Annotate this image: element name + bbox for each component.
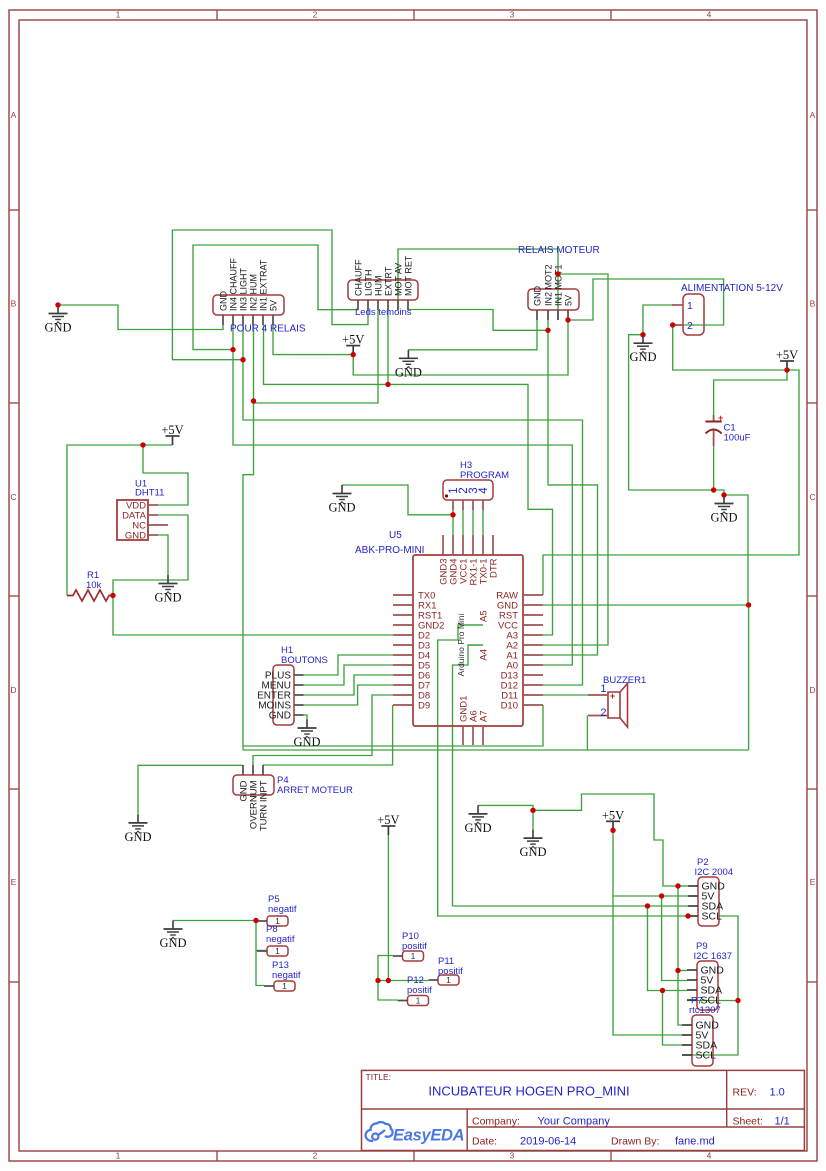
svg-text:4: 4 xyxy=(707,10,712,20)
svg-text:Your Company: Your Company xyxy=(538,1116,611,1128)
wire IN1 to EXTRT and A3 xyxy=(264,325,553,635)
wire P4 OVERNUM to D8 xyxy=(253,695,393,765)
wire P9 SCL row xyxy=(687,1000,738,1002)
connector POUR 4 RELAIS header xyxy=(213,257,284,325)
svg-text:Date:: Date: xyxy=(472,1136,497,1148)
wire A4 to SDA bus xyxy=(453,645,689,906)
svg-text:GND: GND xyxy=(159,936,186,950)
wire SDA to P7 xyxy=(663,991,683,1046)
svg-text:IN2 MOT2: IN2 MOT2 xyxy=(544,264,554,306)
connector P12 positif xyxy=(398,996,429,1006)
wire MOT RET to IN2 MOT2 xyxy=(408,310,548,331)
svg-text:GND: GND xyxy=(125,531,146,542)
junction RELAIS 5V pin xyxy=(565,317,570,322)
junction EXTRT net xyxy=(385,382,390,387)
connector P13 negatif xyxy=(264,981,295,991)
svg-text:2: 2 xyxy=(687,320,693,332)
connector P10 positif xyxy=(393,951,424,961)
svg-text:A4: A4 xyxy=(479,649,490,661)
junction IN4 net xyxy=(230,347,235,352)
svg-text:IN3 LIGHT: IN3 LIGHT xyxy=(239,267,249,311)
wire H1 ENTER to D6 xyxy=(304,675,394,695)
wire ground pair link xyxy=(478,805,533,810)
wire EXTRT led drop xyxy=(387,310,389,384)
wire H1 GND to ground xyxy=(304,715,308,720)
junction +5V positif node xyxy=(386,978,391,983)
wire +5V to P7 5V xyxy=(613,830,682,1035)
connector H1 BOUTONS xyxy=(257,665,303,725)
svg-text:1/1: 1/1 xyxy=(775,1116,790,1128)
ground GND arret moteur xyxy=(124,814,151,844)
svg-text:IN4 CHAUFF: IN4 CHAUFF xyxy=(229,257,239,311)
wire GND bus horizontal xyxy=(243,749,749,751)
junction MOT2 node xyxy=(545,328,550,333)
svg-text:RELAIS MOTEUR: RELAIS MOTEUR xyxy=(518,245,600,256)
svg-text:BOUTONS: BOUTONS xyxy=(281,655,328,666)
wire +5V to R1 left xyxy=(67,445,173,596)
svg-text:D10: D10 xyxy=(501,701,518,712)
svg-text:4: 4 xyxy=(707,1151,712,1161)
wire GND to P2 P9 P7 GND pins xyxy=(533,794,678,886)
svg-text:A: A xyxy=(810,110,816,120)
wire +5V rail to C1 positive xyxy=(714,370,787,415)
svg-text:PROGRAM: PROGRAM xyxy=(460,470,509,481)
svg-text:Company:: Company: xyxy=(472,1116,520,1128)
svg-text:INCUBATEUR HOGEN PRO_MINI: INCUBATEUR HOGEN PRO_MINI xyxy=(428,1084,629,1099)
svg-text:2: 2 xyxy=(600,707,606,719)
title block xyxy=(362,1070,805,1150)
svg-text:IN2 HUM: IN2 HUM xyxy=(249,274,259,311)
svg-text:Sheet:: Sheet: xyxy=(733,1116,763,1128)
wire P8 branch xyxy=(256,950,267,952)
capacitor C1 xyxy=(706,413,724,446)
wire +5V to RELAIS MOTEUR 5V pin xyxy=(353,320,568,375)
svg-text:EXTRT: EXTRT xyxy=(384,266,394,296)
wire P9 GND row xyxy=(678,970,687,972)
svg-text:GND: GND xyxy=(519,845,546,859)
wire U5 GND pin to buzzer net xyxy=(543,604,749,606)
svg-text:negatif: negatif xyxy=(268,904,297,915)
+5V node i2c xyxy=(602,808,624,830)
svg-text:1: 1 xyxy=(116,1151,121,1161)
svg-text:1: 1 xyxy=(282,981,287,991)
wire IN2 junction to HUM led xyxy=(254,310,379,403)
ground GND leds xyxy=(395,350,422,380)
svg-text:D: D xyxy=(10,685,16,695)
wire IN3 to D12 xyxy=(243,325,583,685)
wire MOT2 to A1 xyxy=(543,330,598,655)
svg-text:TURN INPT: TURN INPT xyxy=(259,780,270,831)
junction P2 GND xyxy=(675,883,680,888)
svg-text:3: 3 xyxy=(510,10,515,20)
wire IN2 down the left side xyxy=(243,325,254,750)
connector P5 negatif xyxy=(257,916,288,926)
junction GND left xyxy=(55,302,60,307)
svg-text:5V: 5V xyxy=(564,295,574,306)
svg-text:REV:: REV: xyxy=(733,1087,757,1099)
ground GND left xyxy=(44,305,71,335)
EasyEDA logo xyxy=(366,1122,393,1141)
svg-text:LIGTH: LIGTH xyxy=(364,269,374,296)
wire IN4 to A0 xyxy=(233,325,572,665)
svg-text:POUR 4 RELAIS: POUR 4 RELAIS xyxy=(230,324,306,335)
svg-text:+: + xyxy=(718,413,723,423)
svg-text:1: 1 xyxy=(411,951,416,961)
mcu U5 ABK-PRO-MINI Arduino Pro Mini xyxy=(393,535,543,745)
wire GND to POUR 4 RELAIS GND pin xyxy=(58,305,223,330)
connector P7 rtc1307 xyxy=(682,1015,719,1066)
wire R1 node to D2 xyxy=(113,596,393,636)
svg-text:IN1 EXTRAT: IN1 EXTRAT xyxy=(259,259,269,311)
ground GND program xyxy=(328,485,355,515)
junction H3 GND node xyxy=(450,512,455,517)
wire IN3 junction to LIGTH led xyxy=(172,230,368,360)
junction C1 negative xyxy=(711,487,716,492)
junction P2 SDA xyxy=(645,903,650,908)
wire IN4 junction to CHAUFF led xyxy=(193,245,358,350)
svg-text:GND: GND xyxy=(44,321,71,335)
svg-text:1: 1 xyxy=(275,946,280,956)
svg-text:1: 1 xyxy=(116,10,121,20)
wire P10 branch xyxy=(378,956,393,981)
svg-text:B: B xyxy=(810,299,816,309)
wire IN2 MOT2 pin drop xyxy=(547,320,549,330)
junction IN3 net xyxy=(240,357,245,362)
svg-text:GND: GND xyxy=(533,286,543,307)
junction ALIM GND node xyxy=(640,332,645,337)
junction ALIMENTATION pin 2 xyxy=(670,322,675,327)
svg-text:10k: 10k xyxy=(86,580,102,591)
svg-text:2: 2 xyxy=(313,10,318,20)
svg-text:D9: D9 xyxy=(418,701,430,712)
ground GND negatif xyxy=(159,921,186,951)
svg-text:Drawn By:: Drawn By: xyxy=(611,1136,659,1148)
svg-text:GND: GND xyxy=(629,350,656,364)
svg-text:GND: GND xyxy=(219,291,229,312)
wire H3 pin1 to GND4 xyxy=(452,510,454,535)
wire MOT AV to IN1 MOT1 xyxy=(398,249,558,320)
svg-text:+5V: +5V xyxy=(776,348,798,362)
wire +5V to DHT11 VDD xyxy=(143,445,188,505)
wire POUR4 5V pin to +5V xyxy=(273,325,353,355)
wire 5V to P9 xyxy=(662,896,687,981)
svg-text:3: 3 xyxy=(510,1151,515,1161)
svg-text:+: + xyxy=(610,691,615,701)
svg-text:A7: A7 xyxy=(479,710,490,722)
junction P2 5V xyxy=(659,893,664,898)
wire P2 GND row xyxy=(678,885,688,887)
wire H1 MENU to D5 xyxy=(304,665,394,685)
junction P9 SCL xyxy=(735,998,740,1003)
svg-text:negatif: negatif xyxy=(272,970,301,981)
svg-text:GND: GND xyxy=(293,735,320,749)
svg-text:fane.md: fane.md xyxy=(675,1136,715,1148)
svg-text:CHAUFF: CHAUFF xyxy=(354,259,364,296)
wire H1 PLUS to D4 xyxy=(304,655,394,675)
wire C1 GND to ground symbol and buzzer net xyxy=(714,490,748,605)
junction MOT1 node xyxy=(555,271,560,276)
wire C1 negative drop xyxy=(713,446,715,490)
+5V node positif xyxy=(377,813,399,835)
wire SDA to P9 xyxy=(648,906,688,991)
svg-text:negatif: negatif xyxy=(266,934,295,945)
junction P5 node xyxy=(253,918,258,923)
svg-text:E: E xyxy=(11,877,17,887)
svg-text:DTR: DTR xyxy=(489,558,500,578)
svg-text:GND: GND xyxy=(154,591,181,605)
svg-text:BUZZER1: BUZZER1 xyxy=(603,675,646,686)
junction GND C1 symbol node xyxy=(721,492,726,497)
svg-text:MOT AV: MOT AV xyxy=(394,263,404,296)
ground GND i2c 1 xyxy=(464,805,491,835)
svg-text:A5: A5 xyxy=(479,610,490,622)
connector P9 I2C 1637 xyxy=(687,961,724,1010)
svg-text:2019-06-14: 2019-06-14 xyxy=(520,1136,576,1148)
wire MOT1 to A2 xyxy=(543,274,608,645)
svg-text:ALIMENTATION 5-12V: ALIMENTATION 5-12V xyxy=(681,283,783,294)
junction IN2 net xyxy=(251,398,256,403)
svg-text:SCL: SCL xyxy=(696,1050,717,1062)
junction P2 SCL xyxy=(685,913,690,918)
wire D11 to buzzer pin 1 xyxy=(543,694,588,696)
wire RELAIS GND pin to ground symbol xyxy=(408,320,537,350)
svg-text:positif: positif xyxy=(407,985,432,996)
svg-text:1: 1 xyxy=(687,300,693,312)
wire to P12 xyxy=(378,981,398,1001)
junction GND pair xyxy=(530,808,535,813)
ground GND C1 xyxy=(710,495,737,525)
svg-text:GND: GND xyxy=(395,365,422,379)
ground GND boutons xyxy=(293,720,320,750)
wire H3 pin4 to TX0-1 xyxy=(482,510,484,535)
connector P8 negatif xyxy=(257,946,288,956)
+5V node alimentation xyxy=(776,348,798,370)
svg-text:rtc1307: rtc1307 xyxy=(689,1005,721,1016)
wire GND vertical to P9 P7 xyxy=(678,886,682,1025)
wire H3 pin3 to RX1-1 xyxy=(472,510,474,535)
svg-text:2: 2 xyxy=(313,1151,318,1161)
wire buzzer pin 2 drop xyxy=(586,716,588,751)
junction GND buzzer node xyxy=(746,602,751,607)
junction +5V I2C node xyxy=(610,828,615,833)
wire DHT11 GND to ground xyxy=(158,535,168,575)
svg-text:A: A xyxy=(11,110,17,120)
wire +5V drop to P10 P11 P12 xyxy=(387,835,389,981)
svg-text:+5V: +5V xyxy=(342,333,364,347)
wire ALIMENTATION pin2 to +5V rail and RAW xyxy=(543,325,799,595)
wire H3 pin2 to VCC1 xyxy=(462,510,464,535)
svg-text:Leds temoins: Leds temoins xyxy=(355,307,412,318)
svg-text:MOT RET: MOT RET xyxy=(404,255,414,296)
wire to P11 xyxy=(378,980,429,982)
connector RELAIS MOTEUR header xyxy=(528,264,579,320)
resistor R1 10k xyxy=(67,590,113,601)
svg-text:SCL: SCL xyxy=(702,911,723,923)
ground GND DHT11 xyxy=(154,575,181,605)
svg-text:GND: GND xyxy=(710,511,737,525)
svg-text:B: B xyxy=(11,299,17,309)
junction +5V DHT node xyxy=(140,442,145,447)
wire GND pair drop xyxy=(532,810,534,829)
wire ground to P5 P8 P13 xyxy=(173,920,257,922)
connector P11 positif xyxy=(429,975,460,985)
svg-text:DHT11: DHT11 xyxy=(135,488,164,499)
wire H1 MOINS to D7 xyxy=(304,685,394,705)
svg-text:Arduino Pro Mini: Arduino Pro Mini xyxy=(456,613,466,676)
svg-text:GND: GND xyxy=(464,821,491,835)
svg-text:positif: positif xyxy=(402,941,427,952)
wire P5 chain down xyxy=(256,921,264,986)
wire RELAIS 5V to ALIMENTATION pin 2 xyxy=(568,279,724,325)
ground GND alimentation xyxy=(629,335,656,365)
svg-text:+5V: +5V xyxy=(602,808,624,822)
svg-text:TITLE:: TITLE: xyxy=(366,1072,392,1082)
wire DHT11 DATA to R1 pullup xyxy=(113,515,188,596)
svg-text:1: 1 xyxy=(416,996,421,1006)
connector P2 I2C 2004 xyxy=(688,877,725,926)
svg-text:I2C 2004: I2C 2004 xyxy=(695,867,734,878)
svg-text:4: 4 xyxy=(478,487,490,494)
junction P9 SDA xyxy=(660,988,665,993)
buzzer BUZZER1 xyxy=(588,683,628,727)
svg-text:EasyEDA: EasyEDA xyxy=(393,1127,464,1145)
connector ALIMENTATION 5-12V xyxy=(672,294,704,335)
svg-text:IN1 MOT1: IN1 MOT1 xyxy=(554,264,564,306)
connector H3 PROGRAM xyxy=(443,480,493,510)
connector Leds temoins header xyxy=(348,255,418,310)
svg-text:D: D xyxy=(809,685,815,695)
wire ground to H3 PROGRAM pin1 / U5 GND4 xyxy=(342,485,453,515)
ground GND i2c 2 xyxy=(519,830,546,860)
junction +5V node xyxy=(351,352,356,357)
svg-text:HUM: HUM xyxy=(374,276,384,297)
junction P10 node xyxy=(375,978,380,983)
svg-text:100uF: 100uF xyxy=(724,433,751,444)
svg-text:5V: 5V xyxy=(269,300,279,311)
wire A5 to SCL bus xyxy=(438,625,688,916)
svg-text:GND: GND xyxy=(269,711,291,722)
svg-text:U5: U5 xyxy=(389,530,402,541)
svg-text:ABK-PRO-MINI: ABK-PRO-MINI xyxy=(355,545,424,556)
wire P4 GND to ground left xyxy=(138,765,243,814)
wire GND rail to C1 negative xyxy=(629,335,714,490)
wire P4 TURN INPT to D9 xyxy=(263,705,393,765)
wire SCL right of P2 down to P9 P7 xyxy=(682,916,738,1055)
svg-text:E: E xyxy=(810,877,816,887)
svg-text:ARRET MOTEUR: ARRET MOTEUR xyxy=(277,785,353,796)
junction P9 GND xyxy=(675,968,680,973)
svg-text:GND: GND xyxy=(124,830,151,844)
svg-text:C: C xyxy=(10,492,16,502)
svg-text:+5V: +5V xyxy=(377,813,399,827)
wire +5V to P2 5V xyxy=(613,895,688,897)
wire D10 long horizontal xyxy=(243,705,543,746)
junction +5V rail node xyxy=(784,367,789,372)
wire ALIMENTATION pin1 to ground xyxy=(643,305,674,335)
wire GND net right vertical xyxy=(748,605,750,750)
+5V node relais xyxy=(342,333,364,355)
svg-text:GND: GND xyxy=(328,501,355,515)
svg-text:C: C xyxy=(809,492,815,502)
svg-text:I2C 1637: I2C 1637 xyxy=(694,951,733,962)
+5V node DHT xyxy=(161,423,183,445)
svg-text:+5V: +5V xyxy=(161,423,183,437)
junction R1 DATA node xyxy=(110,593,115,598)
connector P4 ARRET MOTEUR xyxy=(233,765,274,831)
svg-text:positif: positif xyxy=(438,966,463,977)
svg-text:1.0: 1.0 xyxy=(770,1087,785,1099)
sensor U1 DHT11 xyxy=(117,500,168,542)
